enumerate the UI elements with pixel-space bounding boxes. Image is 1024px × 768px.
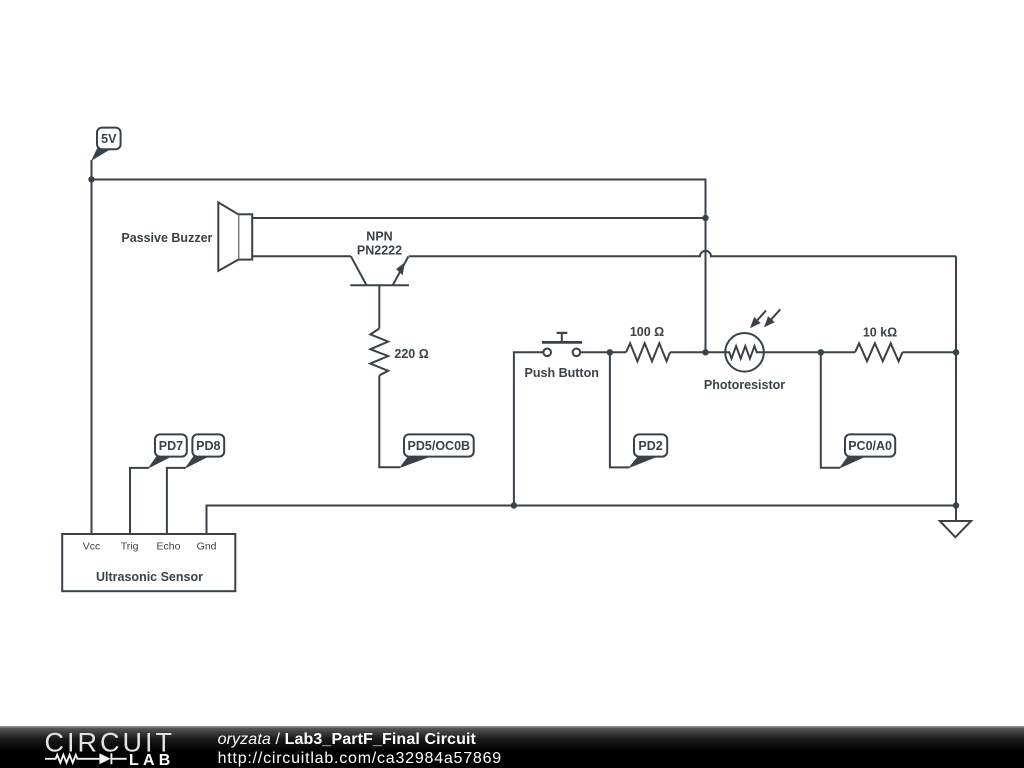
svg-text:PD8: PD8 <box>196 439 220 453</box>
wire PD7 to Trig <box>130 468 149 534</box>
resistor R4 10k ohm <box>855 343 902 361</box>
net PD7 flag <box>148 434 187 469</box>
junction 10k right <box>953 349 959 355</box>
svg-text:Trig: Trig <box>121 541 139 553</box>
switch SW1 push button <box>542 333 582 356</box>
wire buzzer bottom terminal to transistor collector <box>252 255 351 257</box>
wire transistor emitter to right rail with hop <box>409 251 956 257</box>
resistor R2 100 ohm <box>626 343 670 361</box>
wire resistor to PD5 stub <box>379 376 400 468</box>
photoresistor R3 <box>725 309 780 371</box>
svg-text:Gnd: Gnd <box>197 541 217 553</box>
svg-text:LAB: LAB <box>129 752 174 768</box>
net PD8 flag <box>184 434 224 469</box>
wire push button left leg <box>514 352 544 505</box>
svg-text:5V: 5V <box>101 132 117 146</box>
wire push button right to 100 ohm <box>580 351 626 353</box>
footer logo squiggle resistor and diode <box>45 753 127 764</box>
wire right rail vertical <box>955 256 957 521</box>
wire bottom ground rail <box>207 506 957 535</box>
svg-text:Ultrasonic Sensor: Ultrasonic Sensor <box>96 570 203 584</box>
svg-text:Passive Buzzer: Passive Buzzer <box>121 231 212 245</box>
svg-text:NPN: NPN <box>366 230 392 244</box>
svg-text:PD5/OC0B: PD5/OC0B <box>408 439 471 453</box>
wire 5V rail left vertical <box>91 160 93 534</box>
svg-text:Push Button: Push Button <box>525 366 599 380</box>
wire buzzer top terminal <box>252 217 705 219</box>
wire PC0 branch <box>821 352 840 468</box>
svg-text:PD7: PD7 <box>159 439 183 453</box>
svg-text:10 kΩ: 10 kΩ <box>863 325 897 339</box>
svg-text:220 Ω: 220 Ω <box>394 347 428 361</box>
svg-text:Vcc: Vcc <box>83 541 101 553</box>
wire 5V rail top horizontal and right drop <box>92 180 706 353</box>
wire 10k to right rail <box>902 351 956 353</box>
net PC0/A0 flag <box>839 434 895 468</box>
svg-text:oryzata / Lab3_PartF_Final Cir: oryzata / Lab3_PartF_Final Circuit <box>218 731 477 748</box>
resistor R1 220 ohm <box>370 329 388 376</box>
junction buzzer top to 5V drop <box>702 215 708 221</box>
footer bar <box>0 726 1024 768</box>
wire PD8 to Echo <box>167 468 186 534</box>
transistor Q1 NPN PN2222 <box>350 256 409 285</box>
net PD5/OC0B flag <box>399 434 474 468</box>
wire transistor base down to resistor <box>378 285 380 328</box>
svg-text:PC0/A0: PC0/A0 <box>848 439 892 453</box>
junction 5V drop to photoresistor node <box>702 349 708 355</box>
svg-text:http://circuitlab.com/ca32984a: http://circuitlab.com/ca32984a57869 <box>218 750 502 767</box>
junction push button bottom <box>511 502 517 508</box>
svg-text:100 Ω: 100 Ω <box>630 325 664 339</box>
junction push button to PD2 <box>607 349 613 355</box>
ultrasonic sensor U1 box <box>62 534 235 591</box>
wire photoresistor to 10k <box>764 351 855 353</box>
junction PC0 branch <box>818 349 824 355</box>
label NPN PN2222 <box>357 230 402 258</box>
svg-text:PN2222: PN2222 <box>357 244 402 258</box>
svg-text:Echo: Echo <box>157 541 181 553</box>
speaker SP1 Passive Buzzer <box>218 202 252 271</box>
wire 100 ohm to photoresistor <box>670 351 725 353</box>
svg-text:PD2: PD2 <box>638 439 662 453</box>
junction at 5V rail left <box>88 176 94 182</box>
ground symbol <box>940 521 971 537</box>
svg-text:Photoresistor: Photoresistor <box>704 378 785 392</box>
net 5V flag <box>91 128 121 161</box>
net PD2 flag <box>628 434 667 468</box>
junction right rail bottom <box>953 502 959 508</box>
wire PD2 branch <box>610 352 629 467</box>
